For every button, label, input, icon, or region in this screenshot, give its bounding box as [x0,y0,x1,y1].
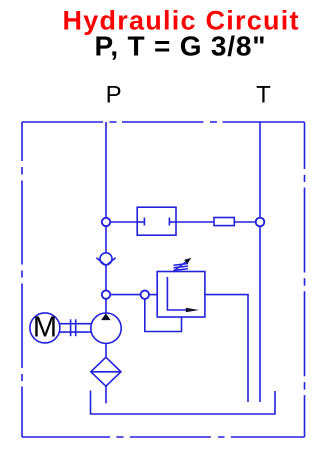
svg-text:P: P [106,81,122,108]
enclosure border bottom [22,436,305,438]
check valve seat [96,258,115,266]
enclosure border top [22,121,305,123]
filter [91,357,121,386]
wire node to plug box [110,221,137,223]
plug box [137,207,176,235]
wire lower node to drain node [110,294,140,296]
motor M [30,313,60,343]
tank [91,391,276,415]
relief valve spring [174,264,189,271]
wire orifice to T node [234,221,255,223]
svg-text:M: M [33,312,57,344]
node P junction lower [102,290,110,298]
wire T line lower to tank [259,226,261,402]
wire check valve to lower node [105,265,107,290]
enclosure border left [21,122,23,437]
wire drain node to relief valve [149,294,157,296]
orifice [214,218,234,226]
svg-text:P, T = G 3/8": P, T = G 3/8" [95,30,266,61]
relief valve internal flow path [167,277,186,310]
relief valve adjustment arrow [173,262,187,272]
pump flow triangle [101,313,111,320]
wire P node to check valve [105,226,107,253]
node T junction [256,218,265,227]
wire lower node to pump [105,299,107,313]
node P junction upper [102,218,110,226]
pump [91,313,121,343]
enclosure border right [304,122,306,437]
node drain junction [141,291,149,299]
wire relief valve outlet [205,295,248,402]
wire pump to filter [105,343,107,357]
wire filter suction into tank [105,386,107,403]
wire relief valve drain [145,299,182,332]
wire T line upper [259,122,261,218]
check valve ball [100,253,112,265]
svg-text:T: T [256,81,271,108]
relief valve body [157,272,205,318]
plug box right port stub [168,218,170,226]
relief valve internal arrowhead [186,308,199,313]
shaft coupling [59,323,91,325]
wire P line upper [105,122,107,218]
wire plug box to orifice [176,221,214,223]
plug box left port stub [137,221,144,223]
